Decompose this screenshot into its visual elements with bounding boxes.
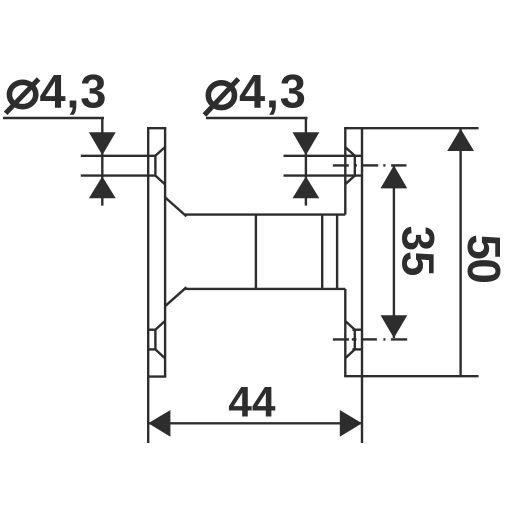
svg-text:50: 50 <box>458 234 510 282</box>
svg-text:44: 44 <box>228 379 276 426</box>
svg-text:4,3: 4,3 <box>40 64 108 117</box>
svg-text:35: 35 <box>393 226 444 277</box>
svg-text:4,3: 4,3 <box>239 64 307 117</box>
